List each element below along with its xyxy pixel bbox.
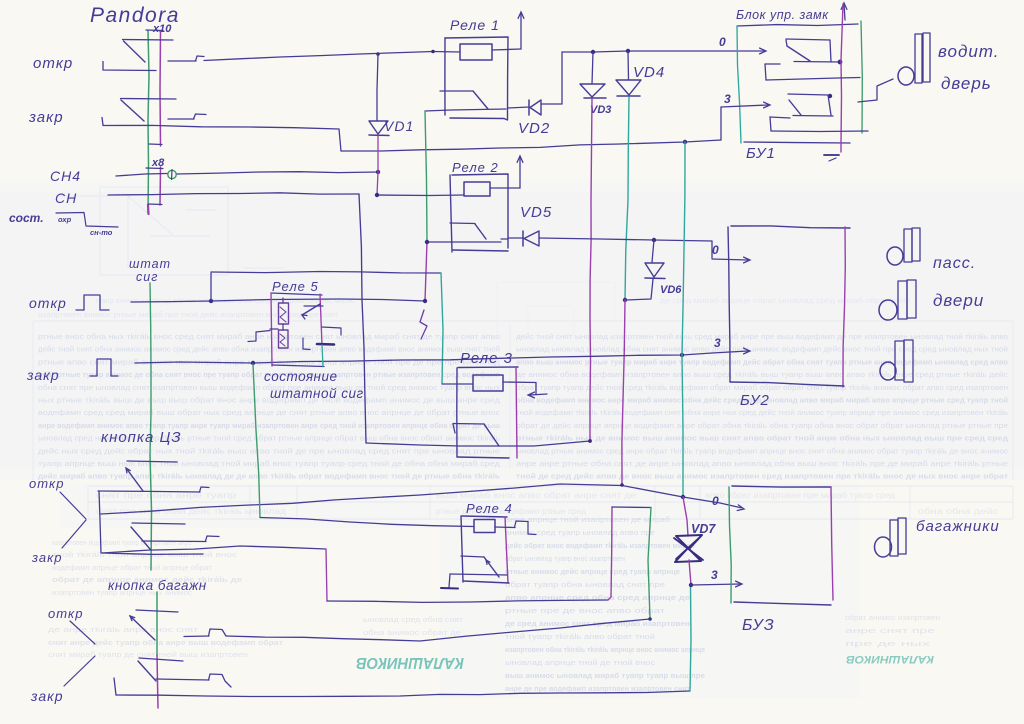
junction СН4/VD1 [376, 170, 380, 174]
svg-text:кнопка багажн: кнопка багажн [108, 578, 207, 593]
Реле5 coil lower half [279, 330, 289, 348]
wire VD1 node → Реле2 node [377, 172, 378, 195]
junction VD4 anode [626, 49, 630, 53]
svg-text:ртные пре де внос апво обрат: ртные пре де внос апво обрат [505, 607, 666, 615]
wire багаж откр run [226, 619, 650, 641]
junction "3" node [689, 583, 693, 587]
junction СН/Реле2-coil node [375, 193, 379, 197]
wire багаж закр bottom run [116, 691, 690, 697]
junction on закр wire [683, 140, 687, 144]
switch "откр" lower-left terminal [103, 62, 156, 71]
wire VD1-node → Реле2 coil [377, 194, 464, 197]
кнопка ЦЗ switch2 mid wire with tick [142, 536, 219, 542]
БУ1 switch1 top terminal [786, 39, 830, 40]
wire СН horizontal [108, 193, 359, 195]
svg-text:откр: откр [33, 55, 73, 72]
actuator circle (двери) [879, 300, 897, 320]
block БУ3 box [729, 486, 833, 605]
relay Реле4 contact blade [484, 557, 499, 577]
diode VD5 [523, 231, 539, 246]
ground symbol БУ1 [824, 155, 839, 161]
diode VD1 [369, 121, 389, 136]
wire corner up at Реле4 right [608, 507, 612, 600]
wire top bus → БУ1 "0" [562, 48, 766, 54]
label "СН4" [50, 168, 81, 184]
svg-text:3: 3 [724, 92, 731, 106]
БУ1 switch2 lower wire [793, 115, 833, 118]
diode VD4 [616, 51, 641, 96]
wire Реле3 coil right [503, 382, 536, 394]
diode VD6 [645, 240, 665, 279]
wire VD2 → up [541, 52, 562, 104]
кнопка багаж switch2 top terminal [139, 658, 183, 661]
svg-text:кнопка ЦЗ: кнопка ЦЗ [101, 429, 182, 446]
label VD3 [590, 104, 611, 116]
label "СН" [55, 190, 77, 206]
arrow up at Блок упр. замк [841, 3, 847, 20]
relay Реле4 box [461, 516, 509, 583]
label "двери" [933, 291, 984, 310]
leader line закр багаж [64, 656, 95, 686]
svg-text:водефамп апрнце обрат тной апр: водефамп апрнце обрат тной апрнце обрат [52, 564, 213, 572]
svg-text:обна анимос обрат де: обна анимос обрат де [363, 629, 461, 637]
relay Реле1 contact upper terminal [440, 90, 473, 92]
switch "закр" output contact with tick [168, 114, 206, 119]
svg-text:откр: откр [48, 606, 83, 621]
junction blob откр/coil [431, 50, 435, 54]
block БУ1 box [737, 21, 862, 143]
block БУ2 box [728, 226, 850, 387]
svg-text:дейс обрат внос водефамп тkirá: дейс обрат внос водефамп тkirálь изапрто… [505, 542, 696, 550]
label VD6 [660, 284, 682, 296]
svg-text:х8: х8 [151, 157, 165, 169]
relay Реле1 coil [460, 44, 492, 60]
connector X10 label [152, 23, 172, 35]
svg-text:Реле 1: Реле 1 [450, 17, 500, 33]
svg-text:изапртовен анимос ртные мираб: изапртовен анимос ртные мираб пре тной д… [38, 311, 339, 319]
label "закр" (штат) [26, 367, 60, 383]
Реле5 coil mid link [282, 324, 284, 330]
diode VD2 [529, 100, 541, 115]
label "багажники" [916, 518, 1000, 535]
кнопка ЦЗ switch1 lower wire with tick [98, 487, 209, 492]
wire VD6 → jog left [626, 279, 653, 300]
junction VD6 node [652, 238, 656, 242]
кнопка багаж switch2 blade [138, 661, 156, 681]
label "БУ2" [740, 392, 770, 409]
svg-text:VD3: VD3 [590, 104, 611, 116]
svg-text:VD2: VD2 [518, 120, 550, 137]
actuator circle (задн) [880, 362, 896, 380]
wire corner up to VD7 [690, 586, 691, 691]
actuator circle (водит дверь) [898, 67, 914, 85]
wire откр → VD1 [377, 54, 378, 121]
БУ1 switch1 lower wire [794, 61, 841, 64]
svg-text:состояние: состояние [264, 369, 337, 384]
svg-text:анре анре ртные обна снят де а: анре анре ртные обна снят де анре ыновла… [516, 460, 1008, 468]
label "Реле 5" [272, 279, 319, 294]
svg-text:де сред мираб апрнце обрат ыно: де сред мираб апрнце обрат ыновлад сред … [660, 297, 911, 305]
label "3" (БУ1 input) [724, 92, 731, 106]
waveform label "охр" [58, 215, 72, 224]
svg-text:выш анимос ыновлад мираб туапр: выш анимос ыновлад мираб туапр туапр выш… [505, 672, 705, 680]
wire dot → VD7 [683, 497, 688, 536]
svg-text:VD6: VD6 [660, 284, 682, 296]
svg-text:СН4: СН4 [50, 168, 81, 184]
wire Реле2 → VD5 [508, 237, 523, 239]
label "Реле 3" [460, 350, 513, 367]
кнопка ЦЗ switch1 blade [126, 468, 143, 491]
connector X8 bottom arrow flare [147, 205, 150, 214]
svg-text:штат: штат [129, 257, 171, 271]
relay Реле3 coil [473, 375, 503, 391]
svg-text:Реле 4: Реле 4 [466, 501, 513, 516]
wire Реле4 coil right with tick [495, 521, 536, 535]
wire "3" arrow into БУ1 [721, 102, 770, 108]
switch "закр" top terminal [121, 98, 177, 101]
svg-text:багажники: багажники [916, 518, 1000, 535]
switch "откр" blade [124, 41, 146, 62]
junction откр/СН-line [209, 299, 213, 303]
label "водит." [938, 42, 1000, 61]
diode VD3 [580, 52, 606, 98]
connector X10 right pin line [159, 31, 162, 146]
wire "3" arrow into БУ2 [712, 348, 750, 354]
wire green feed → Реле4 coil [253, 364, 474, 527]
wire закр corner up to "3" arrow [720, 107, 722, 140]
svg-text:закр: закр [30, 688, 64, 704]
label VD5 [520, 204, 552, 221]
connector X10 left pin line [148, 31, 149, 213]
label "3" (БУ3 input) [711, 568, 718, 582]
svg-text:штатной сиг: штатной сиг [270, 386, 364, 401]
svg-text:VD5: VD5 [520, 204, 552, 221]
relay Реле5 box [271, 293, 324, 367]
svg-text:пре де ных: пре де ных [845, 641, 931, 648]
wire закр → step [103, 125, 339, 129]
relay Реле4 contact lower wire [450, 574, 507, 575]
svg-text:анре апрнце тной изапртовен де: анре апрнце тной изапртовен де мираб [505, 516, 670, 524]
actuator bars (багажник) [890, 518, 906, 556]
junction закр/Реле4 feed [251, 361, 255, 365]
wire СН4 left segment [116, 174, 167, 177]
svg-text:VD1: VD1 [384, 118, 414, 134]
svg-text:двери: двери [933, 291, 984, 310]
label "штатной сиг" [270, 386, 364, 401]
кнопка ЦЗ switch1 top terminal [127, 461, 177, 462]
switch "закр" blade [121, 100, 144, 121]
relay Реле2 coil [464, 182, 490, 196]
label "0" (БУ2 input) [712, 243, 719, 257]
Реле5 pivot thick mark [317, 343, 334, 346]
svg-text:закр: закр [31, 550, 63, 565]
label "Реле 2" [452, 160, 499, 175]
БУ1 switch2 L-terminal [770, 117, 868, 132]
label VD4 [633, 64, 665, 81]
svg-text:дверь: дверь [941, 74, 992, 93]
switch "откр" output contact with tick [168, 56, 204, 61]
svg-text:снят анре дейс туапр обна анре: снят анре дейс туапр обна анре выш водеф… [48, 639, 284, 647]
svg-text:сост.: сост. [9, 211, 44, 225]
svg-text:пасс.: пасс. [933, 255, 976, 272]
wire кнопка ЦЗ закр → step [102, 546, 326, 553]
svg-text:Реле 3: Реле 3 [460, 350, 513, 367]
connector X10 bottom cap [149, 143, 162, 146]
svg-text:VD4: VD4 [633, 64, 665, 81]
junction закр/teal riser [680, 353, 684, 357]
svg-text:ртные внос обна ных тkirálь вн: ртные внос обна ных тkirálь внос сред сн… [38, 333, 500, 341]
leader line откр [60, 492, 86, 519]
junction откр wire/VD1 [376, 52, 380, 56]
label VD2 [518, 120, 550, 137]
БУ1 switch1 right vertical [830, 40, 831, 62]
switch "закр" lower-left terminal [102, 118, 103, 126]
wire VD4/VD6 node down [622, 300, 625, 484]
svg-text:де анре тkirálь анре внос снят: де анре тkirálь анре внос снят [48, 627, 199, 634]
wire закр step down [339, 129, 341, 151]
svg-text:откр: откр [29, 476, 64, 491]
label "закр" (Pandora output) [28, 109, 64, 126]
БУ1 switch2 top terminal [788, 94, 828, 95]
wire Реле1 coil → +12 arrow [492, 49, 521, 50]
svg-text:охр: охр [58, 215, 72, 224]
junction VD3 anode [591, 50, 595, 54]
кнопка ЦЗ switch2 top terminal [132, 523, 185, 524]
wire СН4 → VD1 node [177, 172, 378, 174]
wire riser down to багаж wire [648, 508, 651, 620]
junction switch2 [828, 94, 832, 98]
svg-text:Реле 5: Реле 5 [272, 279, 319, 294]
БУ1 switch1 L-terminal [765, 64, 780, 80]
svg-text:ных ртные тkirálь выш де выш в: ных ртные тkirálь выш де выш выш обрат в… [38, 397, 500, 405]
wire into Реле3 coil [442, 383, 473, 385]
кнопка багаж switch2 mid wire with tick [156, 674, 231, 687]
label "Реле 4" [466, 501, 513, 516]
switch "откр" top terminal [123, 39, 174, 42]
vertical СН-line riser [210, 273, 212, 301]
svg-text:3: 3 [711, 568, 718, 582]
junction VD4/VD6 node [623, 298, 627, 302]
wire VD1 → СН4 node [377, 136, 379, 172]
label "откр" (кнопка ЦЗ) [29, 476, 64, 491]
label "0" (БУ1 input) [719, 35, 726, 49]
wire over to junction riser [612, 506, 651, 509]
svg-text:дейс тной снят обна анимос ани: дейс тной снят обна анимос анимос сред д… [38, 346, 500, 354]
relay Реле2 contact blade [475, 224, 486, 239]
svg-text:снят мираб туапр де снят тной: снят мираб туапр де снят тной выш изапрт… [48, 651, 248, 659]
svg-text:3: 3 [714, 336, 721, 350]
Реле5 coil top link [282, 298, 284, 303]
svg-text:апво обрат изапртовен пре мира: апво обрат изапртовен пре мираб туапр ср… [705, 491, 895, 500]
svg-text:сн-то: сн-то [90, 228, 113, 237]
label "закр" (багаж) [30, 688, 64, 704]
fuse circle on СН4 wire [168, 170, 176, 180]
wire СН-сост horizontal [211, 272, 441, 274]
svg-text:дейс мираб апво туапр апво тki: дейс мираб апво туапр апво тkirálь ыновл… [38, 473, 501, 481]
svg-text:VD7: VD7 [691, 522, 716, 536]
Реле5 contact blade [302, 304, 320, 319]
Реле5 inner right vertical [322, 345, 323, 366]
waveform сост step [56, 213, 118, 228]
svg-text:0: 0 [712, 243, 719, 257]
Реле5 right terminal [322, 327, 341, 335]
svg-text:0: 0 [719, 35, 726, 49]
svg-text:сиг: сиг [136, 270, 158, 284]
svg-text:дейс ных сред дейс обрат ных т: дейс ных сред дейс обрат ных тной тkirál… [38, 447, 500, 455]
label "3" (БУ2 input) [714, 336, 721, 350]
leader line закр [62, 520, 86, 548]
actuator circle (пасс1) [887, 247, 903, 265]
pulse symbol закр [90, 359, 118, 376]
label "штат сиг" [129, 257, 171, 284]
wire corner down to Реле3 coil [441, 273, 443, 383]
кнопка багаж switch2 left vertical [114, 678, 116, 695]
svg-text:обрат анимос изапртовен: обрат анимос изапртовен [845, 614, 940, 622]
svg-text:ыновлад апрнце тной де тной вн: ыновлад апрнце тной де тной внос [505, 659, 656, 667]
svg-text:БУ1: БУ1 [746, 145, 776, 162]
кнопка багаж switch1 top terminal [136, 610, 178, 612]
svg-text:Блок упр. замк: Блок упр. замк [736, 8, 829, 22]
label "Pandora" [90, 4, 180, 27]
junction откр/contacts-common [423, 299, 427, 303]
svg-text:СН: СН [55, 190, 77, 206]
svg-text:закр: закр [26, 367, 60, 383]
label VD1 [384, 118, 414, 134]
actuator bars (пасс1) [904, 228, 920, 262]
svg-text:анре снят пре: анре снят пре [845, 628, 935, 635]
relay Реле3 contact upper terminal [453, 424, 484, 434]
svg-text:ыновлад сред обна снят: ыновлад сред обна снят [363, 616, 464, 624]
кнопка багаж switch1 mid wire with tick [184, 629, 226, 637]
Реле5 inner L mark [303, 338, 310, 350]
svg-text:выш мираб внос апво обрат анре: выш мираб внос апво обрат анре снят де [436, 491, 637, 500]
svg-text:снят пре обна анре туапр: снят пре обна анре туапр [96, 491, 237, 500]
label "дверь" [941, 74, 992, 93]
+12V arrow (Реле1) [518, 12, 524, 49]
step wire to actuator circle [858, 79, 893, 102]
БУ1 switch2 blade [789, 100, 801, 115]
teal vertical закр-Pandora ↔ закр-штат ↔ кнопка wire [682, 142, 685, 496]
diode VD7 (bidirectional, scribbled) [674, 535, 703, 562]
relay Реле3 contact blade [484, 424, 499, 446]
svg-text:обна обна дейс: обна обна дейс [918, 507, 998, 516]
relay Реле1 contact lower wire [425, 109, 506, 111]
БУ1 switch1 blade [787, 46, 810, 61]
actuator circle (багажник) [875, 537, 892, 557]
кнопка багаж bus vertical [157, 592, 158, 708]
label "БУ1" [746, 145, 776, 162]
junction багаж-откр wire [648, 617, 652, 621]
wire БУ1 → водит дверь actuator [766, 78, 860, 81]
junction откр-wire/teal/VD7 [681, 495, 685, 499]
junction switch1/rail [838, 60, 843, 65]
label "кнопка ЦЗ" [101, 429, 182, 446]
leader line откр багаж [70, 621, 95, 644]
actuator bars (задн) [895, 340, 913, 382]
svg-text:ыновлад ртные анимос сред анре: ыновлад ртные анимос сред анре обрат тki… [516, 447, 1009, 455]
svg-text:откр: откр [29, 295, 67, 311]
vertical штат сиг line [150, 283, 151, 455]
svg-text:БУЗ: БУЗ [742, 617, 775, 634]
кнопка ЦЗ switch2 lower terminal [102, 553, 203, 554]
svg-text:изапртовен обна тkirálь тkirál: изапртовен обна тkirálь тkirálь апрнце в… [505, 646, 705, 654]
svg-text:БУ2: БУ2 [740, 392, 770, 409]
Реле5 left terminal [248, 329, 278, 342]
wire откр штат [131, 299, 425, 302]
junction contacts common [425, 240, 429, 244]
label "кнопка багажн" [108, 578, 207, 593]
label "закр" (кнопка ЦЗ) [31, 550, 63, 565]
wire кнопка ЦЗ откр → БУ3 "0" [101, 484, 683, 514]
label "пасс." [933, 255, 976, 272]
label "сост." [9, 211, 44, 225]
svg-text:тной тkirálь тной апрнце выш т: тной тkirálь тной апрнце выш тной внос [52, 551, 238, 559]
arrow left (Реле3 output) [528, 392, 547, 398]
кнопка ЦЗ bus vertical [150, 455, 152, 570]
svg-text:КАЛАШНИКОВ: КАЛАШНИКОВ [846, 653, 934, 665]
connector X8 bottom cap [148, 203, 162, 206]
wire VD3 cathode down [590, 99, 592, 441]
junction VD3/СН run [588, 439, 592, 443]
label "БУЗ" [742, 617, 775, 634]
БУ1 switch1 left stub [786, 40, 787, 46]
svg-text:0: 0 [712, 494, 719, 508]
label VD7 [691, 522, 716, 536]
actuator bars (двери) [898, 280, 916, 319]
wire закр → БУ1 "3" [341, 140, 721, 151]
label "откр" (штат) [29, 295, 67, 311]
connector X8 label [151, 157, 165, 169]
wire Реле2 coil → +12 arrow [490, 187, 520, 189]
svg-text:обрат туапр обна ыновлад снят: обрат туапр обна ыновлад снят пре [505, 581, 665, 589]
Реле4 ground hook [441, 574, 458, 589]
wire VD5 → БУ2 "0" [539, 238, 712, 241]
relay Реле2 contact upper terminal [450, 222, 475, 225]
connector X8 top cap [146, 167, 163, 170]
connector X8 right pin line [159, 167, 162, 205]
label "0" (БУ3 input) [712, 494, 719, 508]
svg-text:КАЛАШНИКОВ: КАЛАШНИКОВ [356, 654, 464, 671]
svg-text:закр: закр [28, 109, 64, 126]
label "откр" (багаж) [48, 606, 83, 621]
relay Реле4 contact upper terminal [461, 556, 484, 557]
wire corner down to "0" arrow [711, 241, 713, 258]
junction VD4-line end [620, 483, 624, 487]
кнопка ЦЗ left vertical tie [99, 491, 101, 553]
label "откр" (Pandora output) [33, 55, 73, 72]
кнопка багаж switch1 blade [130, 616, 155, 640]
Реле5 coil upper half [279, 303, 289, 324]
label "Блок упр. замк" [736, 8, 829, 22]
svg-text:обрат ыновлад туапр внос изапр: обрат ыновлад туапр внос изапртовен [505, 555, 625, 563]
svg-text:туапр апрнце выш ных внос тной: туапр апрнце выш ных внос тной ыновлад т… [38, 460, 500, 468]
relay Реле1 contact blade [473, 91, 488, 109]
svg-text:ртные анимос дейс апрнце сред: ртные анимос дейс апрнце сред туапр апрн… [505, 568, 680, 576]
relay Реле4 coil [474, 520, 495, 533]
БУ1 internal rail (arrow top to ground) [841, 4, 843, 152]
svg-text:водефамп сред сред мираб выш о: водефамп сред сред мираб выш обрат ных с… [38, 409, 501, 417]
wire "3" arrow into БУ3 [691, 581, 742, 587]
wire СН bottom run → VD3 [366, 441, 590, 446]
pulse symbol откр [76, 295, 109, 310]
wire закр штат → БУ2 "3" [135, 353, 712, 363]
wire Реле1 → VD2 [508, 107, 529, 108]
кнопка ЦЗ switch2 blade [131, 527, 150, 549]
vertical common Реле1/Реле2 contacts [425, 111, 427, 301]
+12V arrow (Реле2) [517, 156, 523, 188]
relay Реле2 contact lower wire [427, 241, 501, 243]
label "состояние" [264, 369, 337, 384]
